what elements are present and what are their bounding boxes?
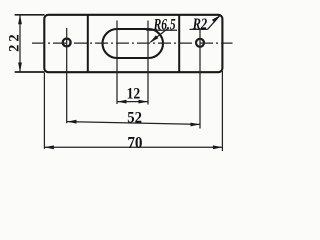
svg-text:R6.5: R6.5 — [153, 17, 176, 34]
svg-text:70: 70 — [127, 134, 142, 152]
svg-text:12: 12 — [127, 86, 141, 103]
svg-text:22: 22 — [6, 31, 22, 52]
svg-text:R2: R2 — [192, 16, 207, 34]
svg-text:52: 52 — [127, 110, 142, 126]
